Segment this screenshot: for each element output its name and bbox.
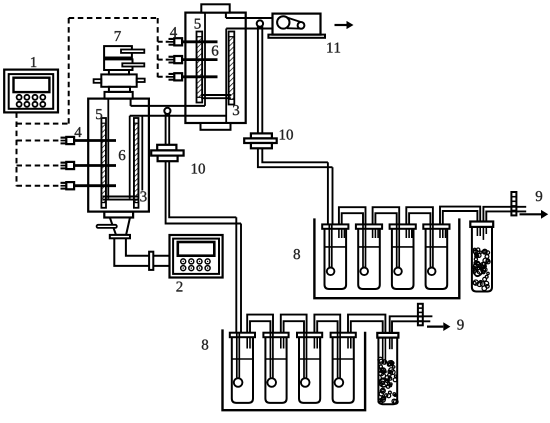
dashed stub to probe 4b of reactor II <box>158 59 169 61</box>
reactor I inner tube wall left <box>107 99 109 199</box>
valve 9 top bar <box>511 192 516 215</box>
reactor I distributor grid 3 <box>103 196 139 198</box>
feeder 7 hopper box B <box>104 59 132 70</box>
probe connector 4c reactor I <box>74 184 116 187</box>
drying tube A cap <box>470 222 493 227</box>
label 11 <box>327 43 332 53</box>
reactor II top cap <box>201 4 229 12</box>
pump 11 base plate <box>268 35 325 38</box>
dashed stub to probe 4b of reactor I <box>17 165 61 167</box>
pump 11 belt <box>287 17 301 22</box>
reactor I outlet step <box>130 99 132 106</box>
feeder 7 bottom collar <box>105 92 133 99</box>
label 1 <box>31 57 36 67</box>
pipe: flange 10 left down and right <box>166 161 241 223</box>
control panel 2 display screen <box>178 242 215 256</box>
label 10 left <box>192 164 197 174</box>
feeder 7 neck 1 <box>109 70 129 74</box>
scrubber bottle A4 <box>423 224 449 228</box>
pump 11 big pulley <box>277 16 289 28</box>
dashed control wire from panel 1 down <box>16 112 18 186</box>
flange 10 left: bottom plate <box>158 156 178 162</box>
reactor I cone handle bar <box>97 225 117 228</box>
label 7 <box>115 31 121 41</box>
scrubber bottle B4 <box>331 333 356 338</box>
reactor II heater strip right <box>229 32 235 105</box>
dashed stub to probe 4a of reactor I <box>17 140 61 142</box>
pipe: U bridge A1 to A2 <box>339 207 366 224</box>
dashed control wire rising <box>68 18 70 124</box>
pipe: reactor I outlet top line to reactor II <box>131 105 205 107</box>
drying tube B body <box>378 338 397 405</box>
dashed stub to probe 4c of reactor I <box>17 185 61 187</box>
water bath tray B <box>223 329 366 410</box>
label 6 reactor II <box>212 46 218 56</box>
pipe: reactor II outlet top line to pump <box>226 17 273 19</box>
pipe: U bridge B4 to drying tube B <box>348 315 385 333</box>
reactor II heater strip left (5) <box>197 32 203 103</box>
scrubber bottle A3 <box>390 224 416 228</box>
dashed stub to probe 4c of reactor II <box>158 76 169 78</box>
reactor II inner tube wall left <box>204 13 206 106</box>
feeder 7 right stub <box>137 79 145 82</box>
drying tube B inlet stub <box>382 338 384 365</box>
control panel 1 inner frame <box>9 74 54 109</box>
pipe: vertical drop from reactor I outlet <box>165 113 167 145</box>
flange 10 right: wide plate <box>244 138 277 143</box>
probe connector 4c reactor II <box>182 75 217 78</box>
control panel 2 outer case <box>170 235 223 278</box>
label 8 bottom <box>202 340 208 350</box>
pipe: U bridge A2 to A3 <box>373 207 400 224</box>
reactor I cone bottom flange <box>110 235 130 238</box>
dashed control wire branch to upper bus <box>17 123 69 125</box>
probe connector 4a reactor I <box>74 139 116 142</box>
probe connector 4b reactor I <box>74 164 116 167</box>
reactor I heater strip right <box>134 118 139 208</box>
pipe: U bridge A4 to drying tube A <box>440 207 480 225</box>
control panel 2 inner frame <box>173 239 219 274</box>
flange 10 left: top plate <box>157 145 176 151</box>
scrubber bottle B3 <box>297 333 322 338</box>
label 4 reactor I <box>75 127 82 137</box>
probe connector 4a reactor II <box>182 40 217 43</box>
flange 10 right: bottom plate <box>251 143 272 148</box>
drying tube A outlet stub <box>482 227 484 240</box>
dashed control wire top run <box>69 17 158 19</box>
reactor I bottom collar <box>104 212 133 218</box>
drying tube B cap <box>377 333 398 338</box>
control panel 1 outer case <box>4 70 58 113</box>
control panel 1 display screen <box>14 78 50 92</box>
pipe: discharge elbow to unit 2 <box>114 238 169 266</box>
dashed stub to probe 4a of reactor II <box>158 41 169 43</box>
pipe: drying tube A to outlet 9 <box>483 207 526 222</box>
reactor II outer shell <box>185 13 245 123</box>
scrubber bottle B2 <box>263 333 288 338</box>
reactor I jacket line right <box>141 116 143 191</box>
scrubber bottle A1 <box>322 224 348 228</box>
feeder 7 left stub <box>94 79 102 83</box>
drying tube A body <box>472 227 492 292</box>
pump 11 housing <box>273 14 321 35</box>
reactor I inner tube wall right <box>129 116 131 199</box>
scrubber bottle A2 <box>356 224 382 228</box>
pipe: flange 10 right down and right <box>258 148 333 167</box>
label 5 reactor I <box>96 109 102 119</box>
scrubber bottle B1 <box>230 333 255 338</box>
label 4 reactor II <box>170 27 177 37</box>
pipe: drying tube B to outlet 9 <box>390 316 433 333</box>
outlet arrow after pump <box>335 24 347 26</box>
reactor II bottom cap <box>201 123 231 130</box>
drying tube A inlet stub <box>476 227 478 236</box>
feeder 7 side bar B <box>122 63 144 66</box>
pipe: U bridge B3 to B4 <box>314 315 340 333</box>
label 2 <box>176 282 182 292</box>
control panel 2 buttons <box>181 259 210 271</box>
feeder 7 motor box C <box>101 74 136 86</box>
pipe: down to scrubber train B <box>235 217 237 333</box>
reactor I outer shell <box>88 99 149 212</box>
label 9 top <box>536 191 542 201</box>
dashed control wire down to reactor II probes <box>157 18 159 77</box>
pipe: U bridge A3 to A4 <box>406 207 433 224</box>
label 8 top <box>294 249 300 259</box>
pipe: reactor II outlet bottom line to pump <box>226 28 272 30</box>
reactor II distributor grid 3 <box>201 94 231 96</box>
pipe: down to scrubber train A <box>327 162 329 224</box>
drying tube A desiccant granules <box>473 248 490 291</box>
reactor II inner tube wall right <box>225 29 227 123</box>
probe connector 4b reactor II <box>182 58 217 61</box>
pipe: U bridge B1 to B2 <box>247 315 273 333</box>
pump 11 small pulley <box>298 22 305 29</box>
reactor I heater strip left (5) <box>101 118 106 208</box>
valve 9 bottom bar <box>418 304 423 326</box>
sample port circle left <box>164 108 170 114</box>
sample port circle right <box>257 20 263 26</box>
control panel 1 buttons <box>17 95 46 107</box>
label 3 reactor II <box>233 105 239 115</box>
label 6 reactor I <box>119 150 125 160</box>
drying tube B outlet stub <box>389 338 391 350</box>
flange 10 right: top plate <box>251 133 272 138</box>
pipe: vertical drop from reactor II outlet <box>257 26 259 134</box>
feeder 7 neck 2 <box>109 87 130 92</box>
label 5 reactor II <box>195 19 201 29</box>
label 3 reactor I <box>140 191 146 201</box>
reactor II outlet step <box>225 13 227 18</box>
pipe: U bridge B2 to B3 <box>281 315 307 333</box>
outlet arrow 9 top <box>520 213 542 215</box>
drying tube B desiccant granules <box>378 357 398 404</box>
label 9 bottom <box>457 320 463 330</box>
label 10 right <box>280 130 285 140</box>
feeder 7 side bar A <box>121 50 144 53</box>
reactor I discharge cone <box>110 218 130 235</box>
water bath tray A <box>314 218 459 298</box>
flange 10 left: wide plate <box>151 150 183 155</box>
pipe: reactor I outlet bottom line to reactor II <box>130 115 227 117</box>
discharge pipe flange bar <box>149 252 153 270</box>
outlet arrow 9 bottom <box>427 326 443 328</box>
feeder 7 hopper box A <box>104 46 132 57</box>
